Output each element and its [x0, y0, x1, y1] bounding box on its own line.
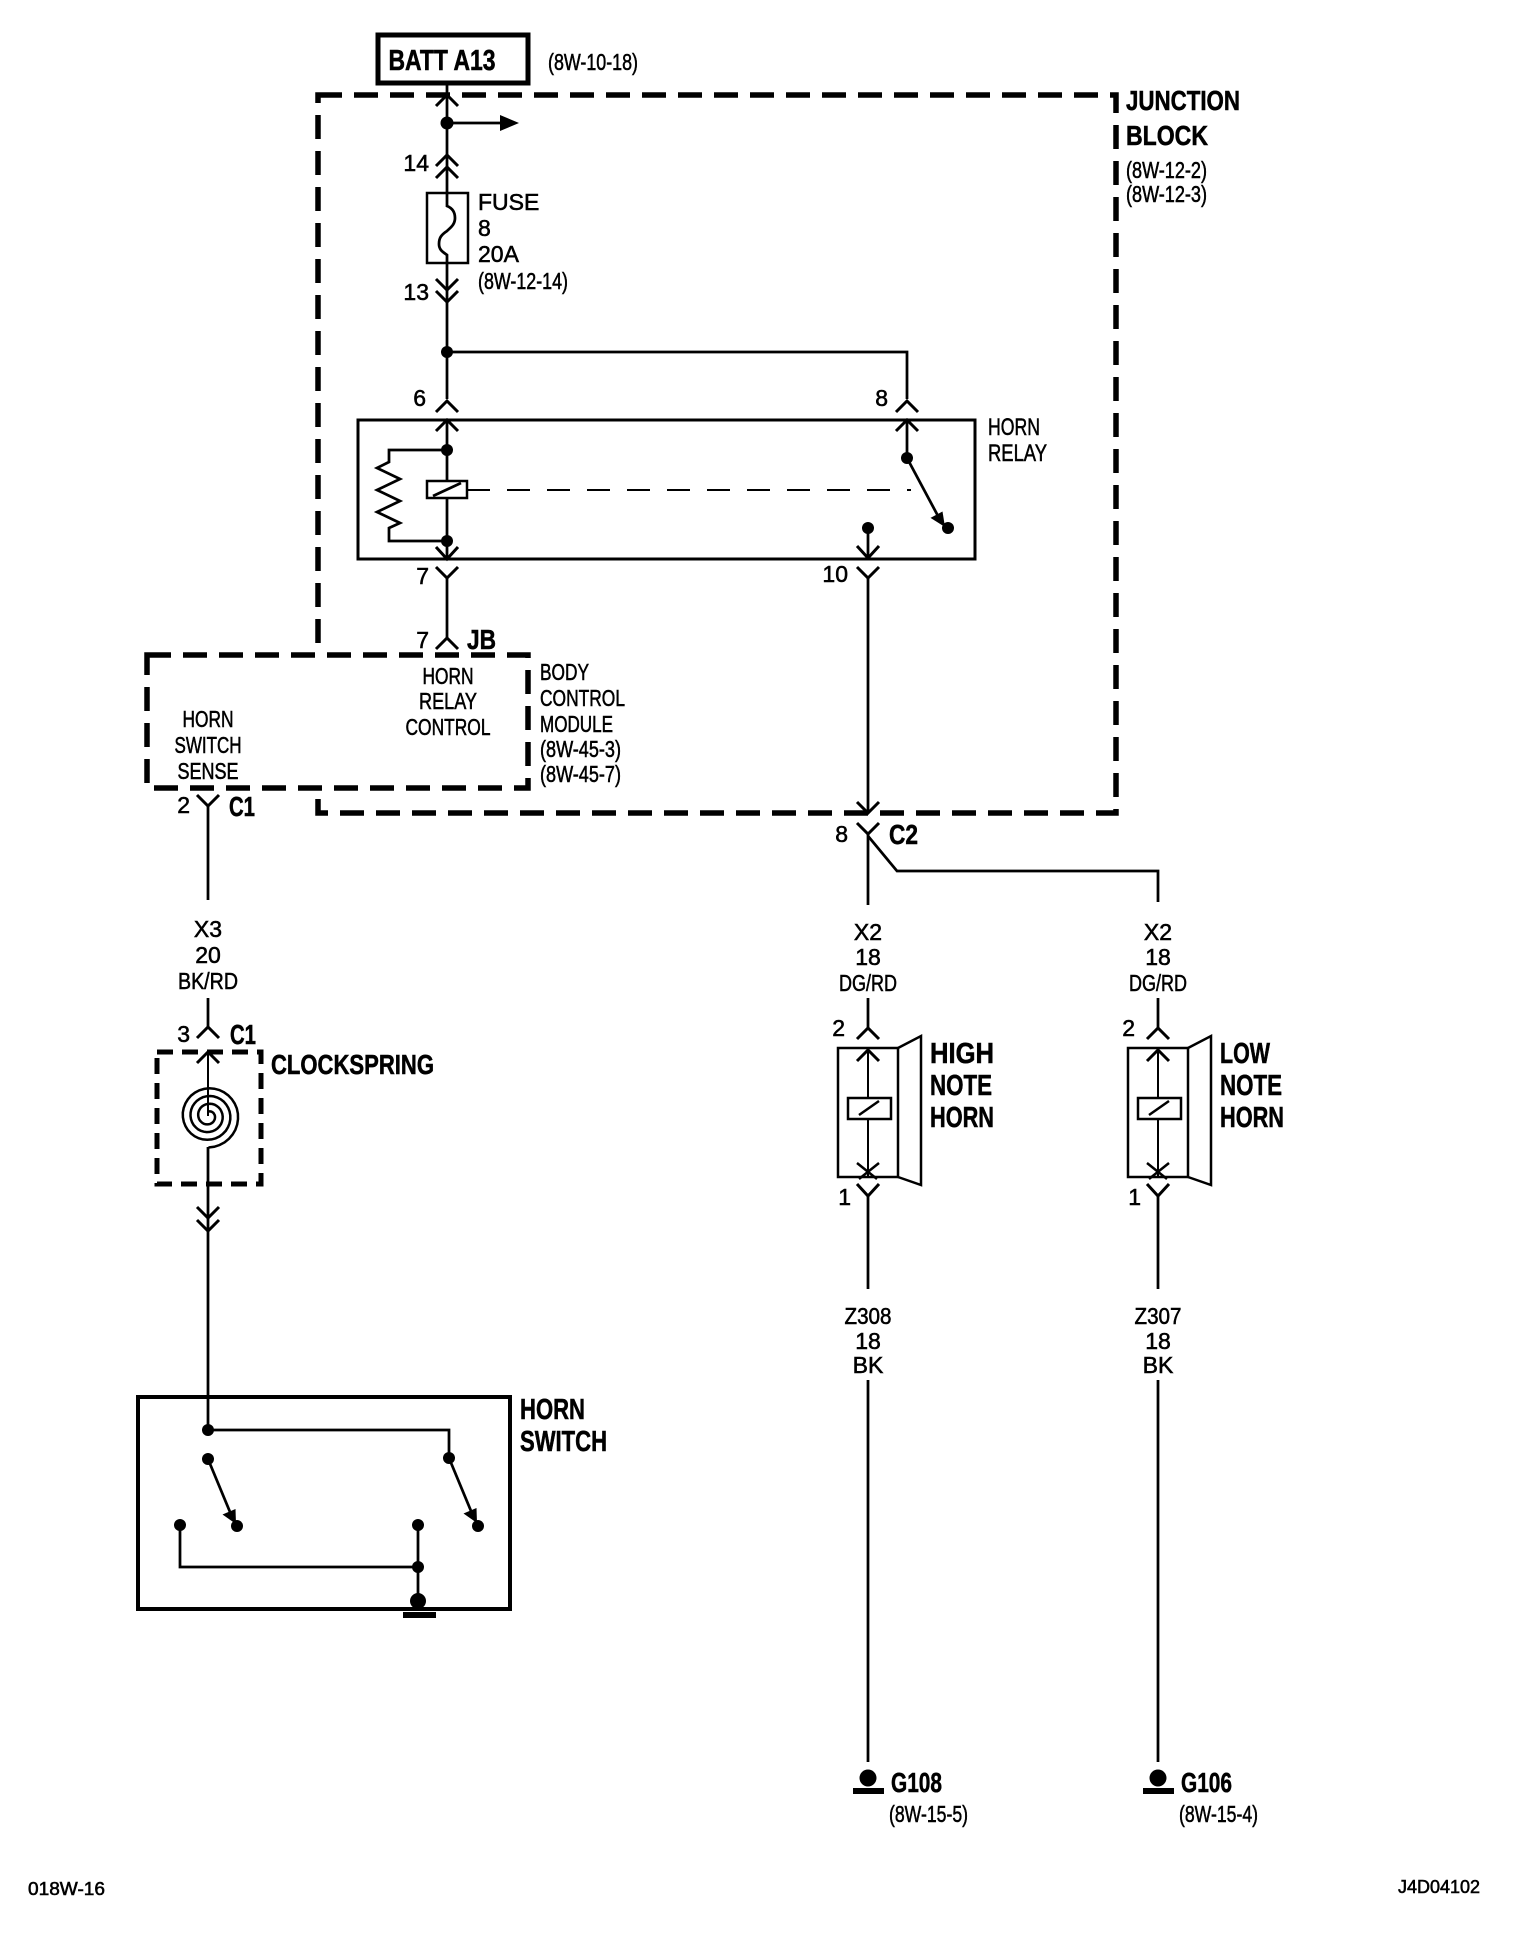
- node junction dot with branch arrow: [441, 117, 454, 130]
- svg-text:RELAY: RELAY: [988, 440, 1047, 467]
- label Z307 18 BK: [1135, 1303, 1182, 1378]
- svg-text:C1: C1: [230, 1019, 256, 1050]
- svg-text:18: 18: [855, 1328, 881, 1354]
- wire to horn pin 2: [1157, 998, 1160, 1028]
- connector horn pin 1: [1128, 1184, 1169, 1210]
- svg-text:Z307: Z307: [1135, 1303, 1182, 1329]
- svg-text:HORN: HORN: [930, 1102, 994, 1134]
- svg-text:FUSE: FUSE: [478, 189, 539, 215]
- coil clockspring spiral: [183, 1088, 238, 1147]
- label HORN RELAY CONTROL: [406, 663, 491, 740]
- svg-text:14: 14: [403, 150, 429, 176]
- horn LOW NOTE: [1128, 1036, 1211, 1185]
- svg-text:DG/RD: DG/RD: [839, 970, 897, 996]
- pin 14 in-line connector: [403, 150, 458, 178]
- label X2 18 DG/RD left: [839, 919, 897, 996]
- svg-text:HIGH: HIGH: [930, 1038, 994, 1070]
- svg-text:8: 8: [835, 821, 848, 847]
- node coil bottom dot: [441, 535, 453, 547]
- svg-text:NOTE: NOTE: [1220, 1070, 1282, 1102]
- svg-text:BK/RD: BK/RD: [178, 968, 238, 994]
- svg-text:3: 3: [177, 1021, 190, 1047]
- svg-text:SENSE: SENSE: [178, 758, 239, 784]
- pin 10 connector: [822, 546, 879, 587]
- svg-text:HORN: HORN: [988, 414, 1040, 441]
- connector 2 C1: [177, 791, 255, 822]
- wire to ground: [867, 1380, 870, 1762]
- connector arrow into junction block: [436, 95, 458, 106]
- svg-text:018W-16: 018W-16: [28, 1879, 105, 1899]
- pin 6 connector: [413, 385, 458, 431]
- wire C1 pin2 down: [207, 806, 210, 900]
- node right pole dot: [443, 1452, 455, 1464]
- relay box: [358, 420, 975, 559]
- svg-text:C1: C1: [229, 791, 255, 822]
- label HORN SWITCH SENSE: [175, 706, 242, 784]
- svg-text:6: 6: [413, 385, 426, 411]
- svg-text:(8W-12-3): (8W-12-3): [1126, 181, 1207, 207]
- svg-text:BATT A13: BATT A13: [389, 45, 496, 77]
- horn HIGH NOTE: [838, 1036, 921, 1185]
- node left pole dot: [202, 1453, 214, 1465]
- switch relay blade: [907, 458, 954, 534]
- node coil top dot: [441, 444, 453, 456]
- relay coil: [427, 481, 467, 498]
- svg-text:SWITCH: SWITCH: [175, 732, 242, 758]
- pin 7 connector: [416, 547, 458, 589]
- svg-text:SWITCH: SWITCH: [520, 1426, 607, 1458]
- horn switch box: [138, 1397, 510, 1609]
- svg-text:18: 18: [1145, 944, 1171, 970]
- svg-text:BODY: BODY: [540, 659, 589, 685]
- svg-text:10: 10: [822, 561, 848, 587]
- svg-text:2: 2: [832, 1015, 845, 1041]
- wire branch arrow to other circuits: [447, 115, 519, 131]
- svg-text:20A: 20A: [478, 241, 520, 267]
- wire relay coil branch: [446, 420, 449, 559]
- svg-text:(8W-12-14): (8W-12-14): [478, 268, 568, 294]
- svg-text:CONTROL: CONTROL: [540, 685, 625, 711]
- svg-text:(8W-12-2): (8W-12-2): [1126, 157, 1207, 183]
- svg-text:HORN: HORN: [423, 663, 474, 689]
- svg-text:8: 8: [478, 215, 491, 241]
- switch right blade: [449, 1458, 477, 1523]
- svg-text:7: 7: [416, 627, 429, 653]
- connector 8 C2: [835, 802, 918, 850]
- label Z308 18 BK: [845, 1303, 892, 1378]
- wire C2 branch to low note horn: [868, 836, 1158, 902]
- connector arrow into clockspring: [197, 1052, 219, 1063]
- node ground-side contact dot: [174, 1519, 186, 1531]
- pin 8 connector: [875, 385, 918, 431]
- connector 7 JB: [416, 624, 496, 655]
- svg-text:J4D04102: J4D04102: [1398, 1877, 1480, 1897]
- svg-text:RELAY: RELAY: [419, 688, 477, 714]
- label HORN SWITCH: [520, 1394, 607, 1458]
- svg-text:BLOCK: BLOCK: [1126, 120, 1208, 151]
- svg-text:1: 1: [1128, 1184, 1141, 1210]
- svg-text:BK: BK: [1143, 1352, 1174, 1378]
- pin 13 in-line connector: [403, 279, 458, 305]
- wire to horn pin 2: [867, 998, 870, 1028]
- svg-text:CLOCKSPRING: CLOCKSPRING: [271, 1049, 434, 1080]
- connector horn pin 2: [1122, 1015, 1169, 1041]
- clockspring dashed box: [157, 1052, 261, 1184]
- wire C2 to high note horn: [867, 834, 870, 905]
- wire fuse to relay pin 6: [446, 263, 449, 399]
- svg-text:7: 7: [416, 563, 429, 589]
- label BODY CONTROL MODULE: [540, 659, 625, 787]
- svg-text:G108: G108: [891, 1767, 942, 1798]
- switch left blade: [208, 1459, 236, 1524]
- node switch input dot: [202, 1424, 214, 1436]
- ground G106: [1143, 1767, 1232, 1798]
- connector horn pin 2: [832, 1015, 879, 1041]
- wire clockspring to horn switch: [207, 1147, 210, 1430]
- node junction dot feed split: [441, 346, 453, 358]
- ground horn switch case ground: [403, 1593, 436, 1618]
- svg-text:(8W-45-7): (8W-45-7): [540, 761, 621, 787]
- svg-text:2: 2: [1122, 1015, 1135, 1041]
- node ground bus dots: [412, 1519, 424, 1573]
- junction block dashed boundary: [318, 95, 1116, 813]
- svg-text:X3: X3: [194, 916, 222, 942]
- wire ground bus: [180, 1525, 418, 1601]
- wire junction to relay pin 8: [447, 352, 907, 399]
- wire to ground: [1157, 1380, 1160, 1762]
- svg-text:HORN: HORN: [1220, 1102, 1284, 1134]
- label FUSE 8 20A (8W-12-14): [478, 189, 568, 294]
- svg-text:JUNCTION: JUNCTION: [1126, 85, 1240, 116]
- svg-text:JB: JB: [467, 624, 496, 655]
- node relay common pivot: [901, 452, 913, 464]
- svg-text:8: 8: [875, 385, 888, 411]
- ground G108: [853, 1767, 942, 1798]
- wire switch top bus: [208, 1430, 449, 1458]
- svg-text:Z308: Z308: [845, 1303, 892, 1329]
- wire dashed actuation link: [467, 489, 911, 491]
- svg-text:C2: C2: [889, 819, 918, 850]
- svg-text:NOTE: NOTE: [930, 1070, 992, 1102]
- svg-text:18: 18: [1145, 1328, 1171, 1354]
- svg-text:HORN: HORN: [183, 706, 234, 732]
- svg-text:(8W-10-18): (8W-10-18): [548, 49, 638, 75]
- fuse 8 20A: [427, 193, 468, 263]
- label X2 18 DG/RD right: [1129, 919, 1187, 996]
- svg-text:G106: G106: [1181, 1767, 1232, 1798]
- label X3 20 BK/RD: [178, 916, 238, 994]
- svg-text:20: 20: [195, 942, 221, 968]
- svg-text:HORN: HORN: [520, 1394, 585, 1426]
- label HORN RELAY: [988, 414, 1047, 467]
- connector horn pin 1: [838, 1184, 879, 1210]
- label LOW NOTE HORN: [1220, 1038, 1284, 1134]
- svg-text:X2: X2: [1144, 919, 1172, 945]
- label HIGH NOTE HORN: [930, 1038, 994, 1134]
- node relay NO contact dot: [862, 522, 874, 534]
- connector 3 C1: [177, 1019, 256, 1050]
- svg-text:2: 2: [177, 792, 190, 818]
- svg-text:BK: BK: [853, 1352, 884, 1378]
- node BATT A13 power feed box: [378, 35, 528, 83]
- svg-text:DG/RD: DG/RD: [1129, 970, 1187, 996]
- wire to clockspring connector: [207, 998, 210, 1027]
- wire horn pin 1 down: [867, 1196, 870, 1289]
- svg-text:X2: X2: [854, 919, 882, 945]
- svg-text:18: 18: [855, 944, 881, 970]
- node right contact dot: [472, 1520, 484, 1532]
- svg-text:(8W-15-5): (8W-15-5): [889, 1801, 968, 1827]
- node left contact dot: [231, 1520, 243, 1532]
- label JUNCTION BLOCK: [1126, 85, 1240, 207]
- svg-text:1: 1: [838, 1184, 851, 1210]
- svg-text:MODULE: MODULE: [540, 711, 613, 737]
- svg-text:LOW: LOW: [1220, 1038, 1270, 1070]
- wire relay pin 10 to C2: [867, 578, 870, 813]
- svg-text:13: 13: [403, 279, 429, 305]
- svg-text:(8W-15-4): (8W-15-4): [1179, 1801, 1258, 1827]
- wire relay pin 7 to JB connector: [446, 578, 449, 638]
- body control module dashed box: [147, 655, 528, 788]
- in-line connector below clockspring: [197, 1207, 219, 1231]
- resistor relay suppression: [377, 450, 447, 541]
- svg-text:CONTROL: CONTROL: [406, 714, 491, 740]
- wire horn pin 1 down: [1157, 1196, 1160, 1289]
- svg-text:(8W-45-3): (8W-45-3): [540, 736, 621, 762]
- wire BATT A13 to fuse: [446, 81, 449, 193]
